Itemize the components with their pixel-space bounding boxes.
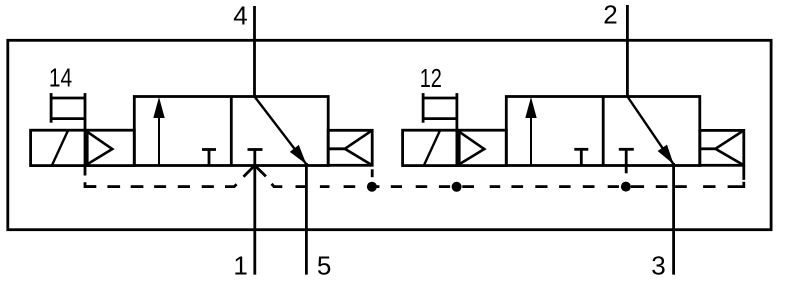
svg-text:12: 12: [420, 63, 442, 93]
svg-text:14: 14: [49, 62, 72, 92]
svg-text:1: 1: [233, 251, 247, 281]
svg-text:4: 4: [233, 1, 247, 31]
svg-text:2: 2: [603, 0, 617, 30]
svg-text:3: 3: [651, 251, 665, 281]
svg-text:5: 5: [317, 251, 331, 281]
